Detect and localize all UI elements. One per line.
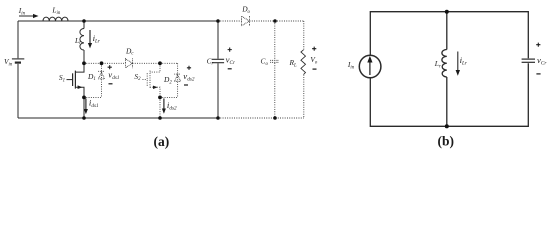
svg-text:(a): (a) — [154, 134, 170, 149]
svg-text:(b): (b) — [438, 133, 455, 148]
